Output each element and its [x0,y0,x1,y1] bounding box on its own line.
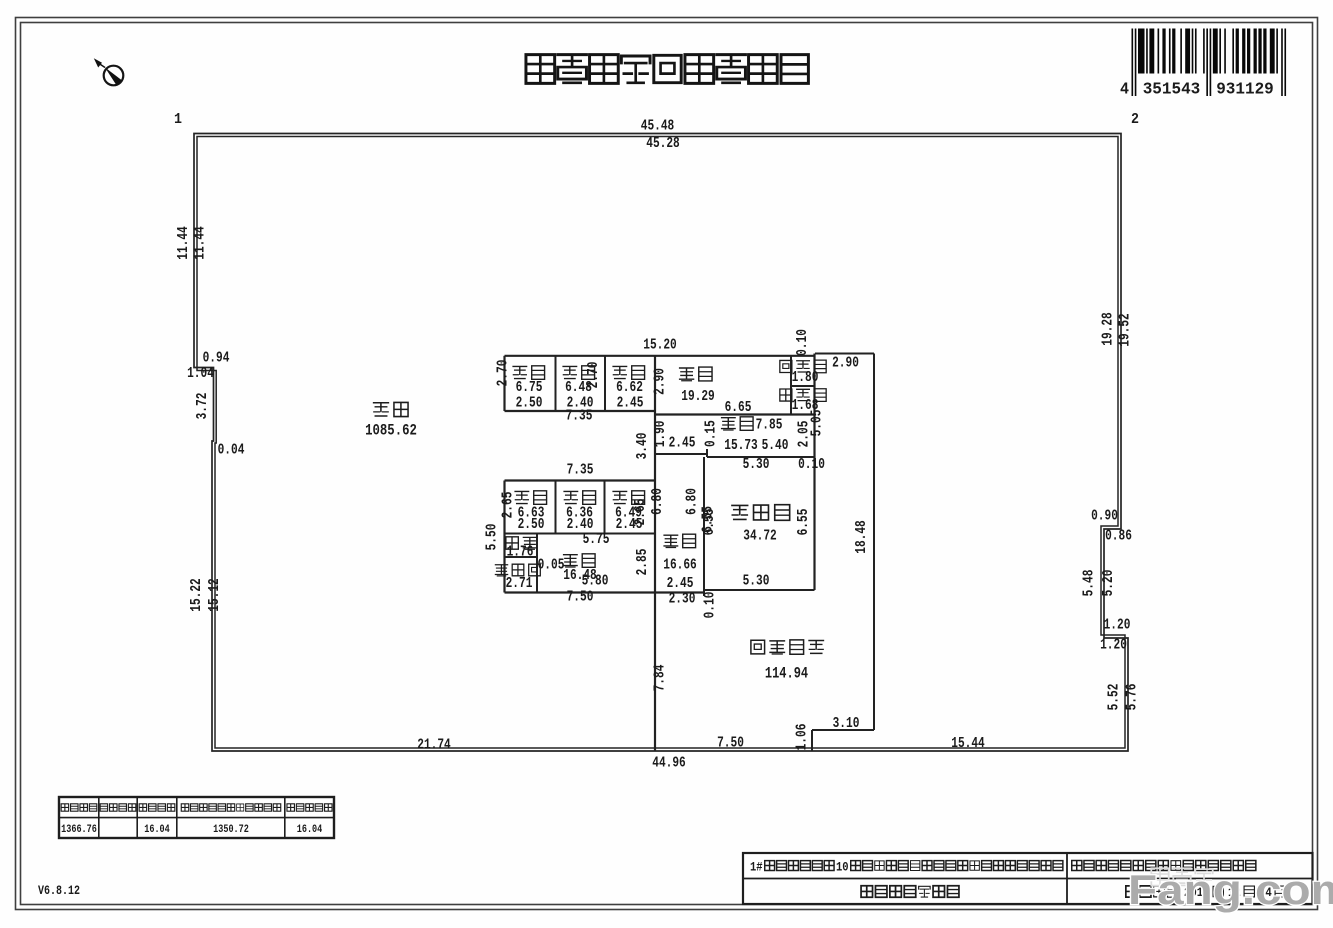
svg-text:0.10: 0.10 [703,592,719,619]
wall step 1.06 [811,730,813,751]
svg-text:6.48: 6.48 [565,380,592,396]
svg-text:2.45: 2.45 [616,517,643,533]
area table frame [59,797,334,838]
svg-text:4: 4 [1120,80,1129,99]
svg-text:10: 10 [836,860,849,875]
watermark Fang.com [1128,866,1333,913]
svg-text:V6.8.12: V6.8.12 [38,883,80,898]
svg-text:2.90: 2.90 [653,368,669,395]
svg-text:44.96: 44.96 [652,756,686,772]
room label 电梯 l1 [514,490,547,505]
wall top right strip [815,353,874,355]
svg-text:5.40: 5.40 [762,438,789,454]
room label ）1号楼 [1071,860,1119,872]
svg-text:45.48: 45.48 [641,119,675,135]
wall upper divider 1 [555,356,557,411]
wall step 3.10 [812,729,874,731]
svg-text:2.40: 2.40 [567,396,594,412]
wall 0.15 step [706,449,708,457]
wall long vertical x=655 [654,356,656,751]
room label 房屋分层平面示意图 title [524,53,809,85]
svg-text:16.04: 16.04 [297,824,323,836]
outer wall inner line [197,137,1125,749]
svg-text:16.04: 16.04 [144,824,170,836]
svg-text:5.80: 5.80 [582,574,609,590]
room label 疏散通道 [750,639,824,655]
room label 弱电间 [779,359,827,373]
svg-text:6.80: 6.80 [685,488,701,515]
svg-text:1#: 1# [750,860,763,875]
wall bathroom top [707,456,815,458]
room label 电梯 u3 [612,365,645,380]
svg-text:19.29: 19.29 [681,389,715,405]
room label 卫生间 [731,504,790,521]
wall stair bottom / weak-room bottom [655,413,815,415]
svg-text:0.04: 0.04 [218,443,245,459]
svg-text:2.45: 2.45 [669,436,696,452]
wall core upper top [505,355,816,357]
svg-text:1366.76: 1366.76 [61,824,97,836]
wall weak/strong divider [791,385,815,387]
room label 电梯 u2 [562,365,595,380]
svg-text:5.30: 5.30 [743,574,770,590]
north arrow icon [94,58,123,86]
wall lower block left [503,481,505,593]
svg-text:0.10: 0.10 [795,329,811,356]
room label 水管井 [495,564,541,577]
room label 房天下 watermark faint [1150,867,1213,886]
room label 建筑面积 header [61,803,98,812]
room label 楼梯 upper [679,366,713,381]
room label 前室 upper [721,416,754,431]
wall anteroom bottom left part [655,453,707,455]
wall upper divider 2 [604,356,606,411]
svg-text:3.40: 3.40 [635,433,651,460]
svg-text:0.10: 0.10 [798,457,825,473]
room label 电梯 l3 [612,490,645,505]
wall upper elevators bottom [505,410,656,412]
svg-text:7.85: 7.85 [756,418,783,434]
wall lower elevators bottom [505,533,656,535]
room label 电梯 u1 [512,365,545,380]
room label 出图日期 [1125,885,1179,898]
svg-text:0.90: 0.90 [1091,509,1118,525]
svg-text:45.28: 45.28 [646,136,680,152]
barcode EAN-13 4351543931129 [1132,29,1287,97]
svg-text:2.50: 2.50 [518,517,545,533]
svg-text:931129: 931129 [1216,80,1274,99]
svg-text:2.85: 2.85 [635,549,651,576]
svg-text:5.20: 5.20 [1101,570,1117,597]
room label 套建面积 header [100,803,137,812]
svg-text:15.20: 15.20 [643,338,677,354]
svg-text:5.50: 5.50 [485,524,501,551]
svg-text:16.66: 16.66 [663,558,697,574]
wall bathroom bottom [704,589,815,591]
room label 风道 [505,536,537,550]
svg-text:6.55: 6.55 [796,509,812,536]
svg-text:0.15: 0.15 [704,420,720,447]
svg-text:Fang.com: Fang.com [1128,866,1333,913]
svg-text:2.45: 2.45 [617,396,644,412]
svg-text:1.04: 1.04 [187,366,214,382]
svg-text:1.06: 1.06 [795,724,811,751]
room label 1#办公、1#办公地下分摊 header [181,803,282,812]
svg-text:18.48: 18.48 [854,520,870,554]
room label 大堂 [373,402,409,418]
svg-text:351543: 351543 [1143,80,1201,99]
room label 北京花都**测绘有限公司 [1120,860,1257,872]
svg-text:15.44: 15.44 [951,736,985,752]
svg-text:34.72: 34.72 [743,529,777,545]
svg-text:3.72: 3.72 [195,393,211,420]
svg-text:6.62: 6.62 [616,380,643,396]
room label 月 [1244,885,1256,897]
wall upper block left [503,356,505,411]
wall lower block top [505,479,656,481]
svg-text:3.10: 3.10 [833,716,860,732]
svg-text:2.70: 2.70 [496,360,512,387]
wall lower block bottom [505,591,705,593]
room label 强电间 [779,388,827,402]
svg-text:7.84: 7.84 [653,665,669,692]
svg-text:2.30: 2.30 [669,592,696,608]
wall bathroom left [703,457,705,596]
svg-text:0.86: 0.86 [1105,529,1132,545]
svg-text:2.65: 2.65 [501,492,517,519]
room label 总部办公楼等 [764,860,835,871]
svg-text:7.50: 7.50 [717,736,744,752]
wall right wall x=814.5 [813,354,815,591]
room label 外墙一半 header [139,803,176,812]
svg-text:5.52: 5.52 [1107,684,1123,711]
svg-text:2.40: 2.40 [567,517,594,533]
svg-text:2.45: 2.45 [667,576,694,592]
svg-text:1.90: 1.90 [653,420,669,447]
room label 1#办公分摊 header [286,803,332,812]
svg-text:2.50: 2.50 [516,396,543,412]
wall long vertical x=874 [873,354,875,731]
svg-text:11.44: 11.44 [176,226,192,260]
svg-text:2: 2 [1131,111,1139,128]
outer wall loop [194,134,1128,752]
room label 日 [1275,885,1287,897]
svg-text:1.20: 1.20 [1104,618,1131,634]
room label 楼梯 lower [563,553,596,568]
wall duct bottom [505,556,538,558]
svg-text:1.20: 1.20 [1100,638,1127,654]
wall lower divider 1 [555,481,557,534]
svg-text:5.48: 5.48 [1082,570,1098,597]
svg-text:2.71: 2.71 [506,576,533,592]
wall weak room left [790,356,792,415]
svg-text:11.44: 11.44 [193,226,209,260]
svg-text:15.12: 15.12 [207,578,223,612]
svg-text:19.52: 19.52 [1118,313,1134,347]
svg-text:2.05: 2.05 [797,421,813,448]
svg-text:7.50: 7.50 [567,590,594,606]
svg-text:2.90: 2.90 [832,356,859,372]
room label 一层平面示意图 [860,885,960,898]
room label 电梯 l2 [563,490,596,505]
svg-text:6.75: 6.75 [516,380,543,396]
title block frame [743,853,1313,904]
svg-text:0.94: 0.94 [203,351,230,367]
svg-text:19.28: 19.28 [1101,312,1117,346]
room label 年 [1213,886,1225,898]
svg-text:114.94: 114.94 [765,665,808,683]
svg-text:0.05: 0.05 [538,558,565,574]
svg-text:15.73: 15.73 [724,438,758,454]
svg-text:5.76: 5.76 [1125,684,1141,711]
wall lower divider 2 [604,481,606,534]
svg-text:15.22: 15.22 [189,578,205,612]
svg-text:21.74: 21.74 [417,738,451,754]
svg-text:6.65: 6.65 [725,400,752,416]
svg-text:5.75: 5.75 [583,532,610,548]
room label 项（富兴嘉城商务楼项目（简称富兴国际项目） [850,860,1064,871]
svg-text:1: 1 [174,111,182,128]
svg-text:5.30: 5.30 [743,457,770,473]
svg-text:1350.72: 1350.72 [213,824,249,836]
svg-text:7.35: 7.35 [567,463,594,479]
svg-text:1085.62: 1085.62 [365,422,417,440]
svg-text:6.55: 6.55 [701,506,717,533]
room label 前室 lower [663,534,696,549]
wall duct/shaft right [536,534,538,593]
svg-text:6.80: 6.80 [650,488,666,515]
